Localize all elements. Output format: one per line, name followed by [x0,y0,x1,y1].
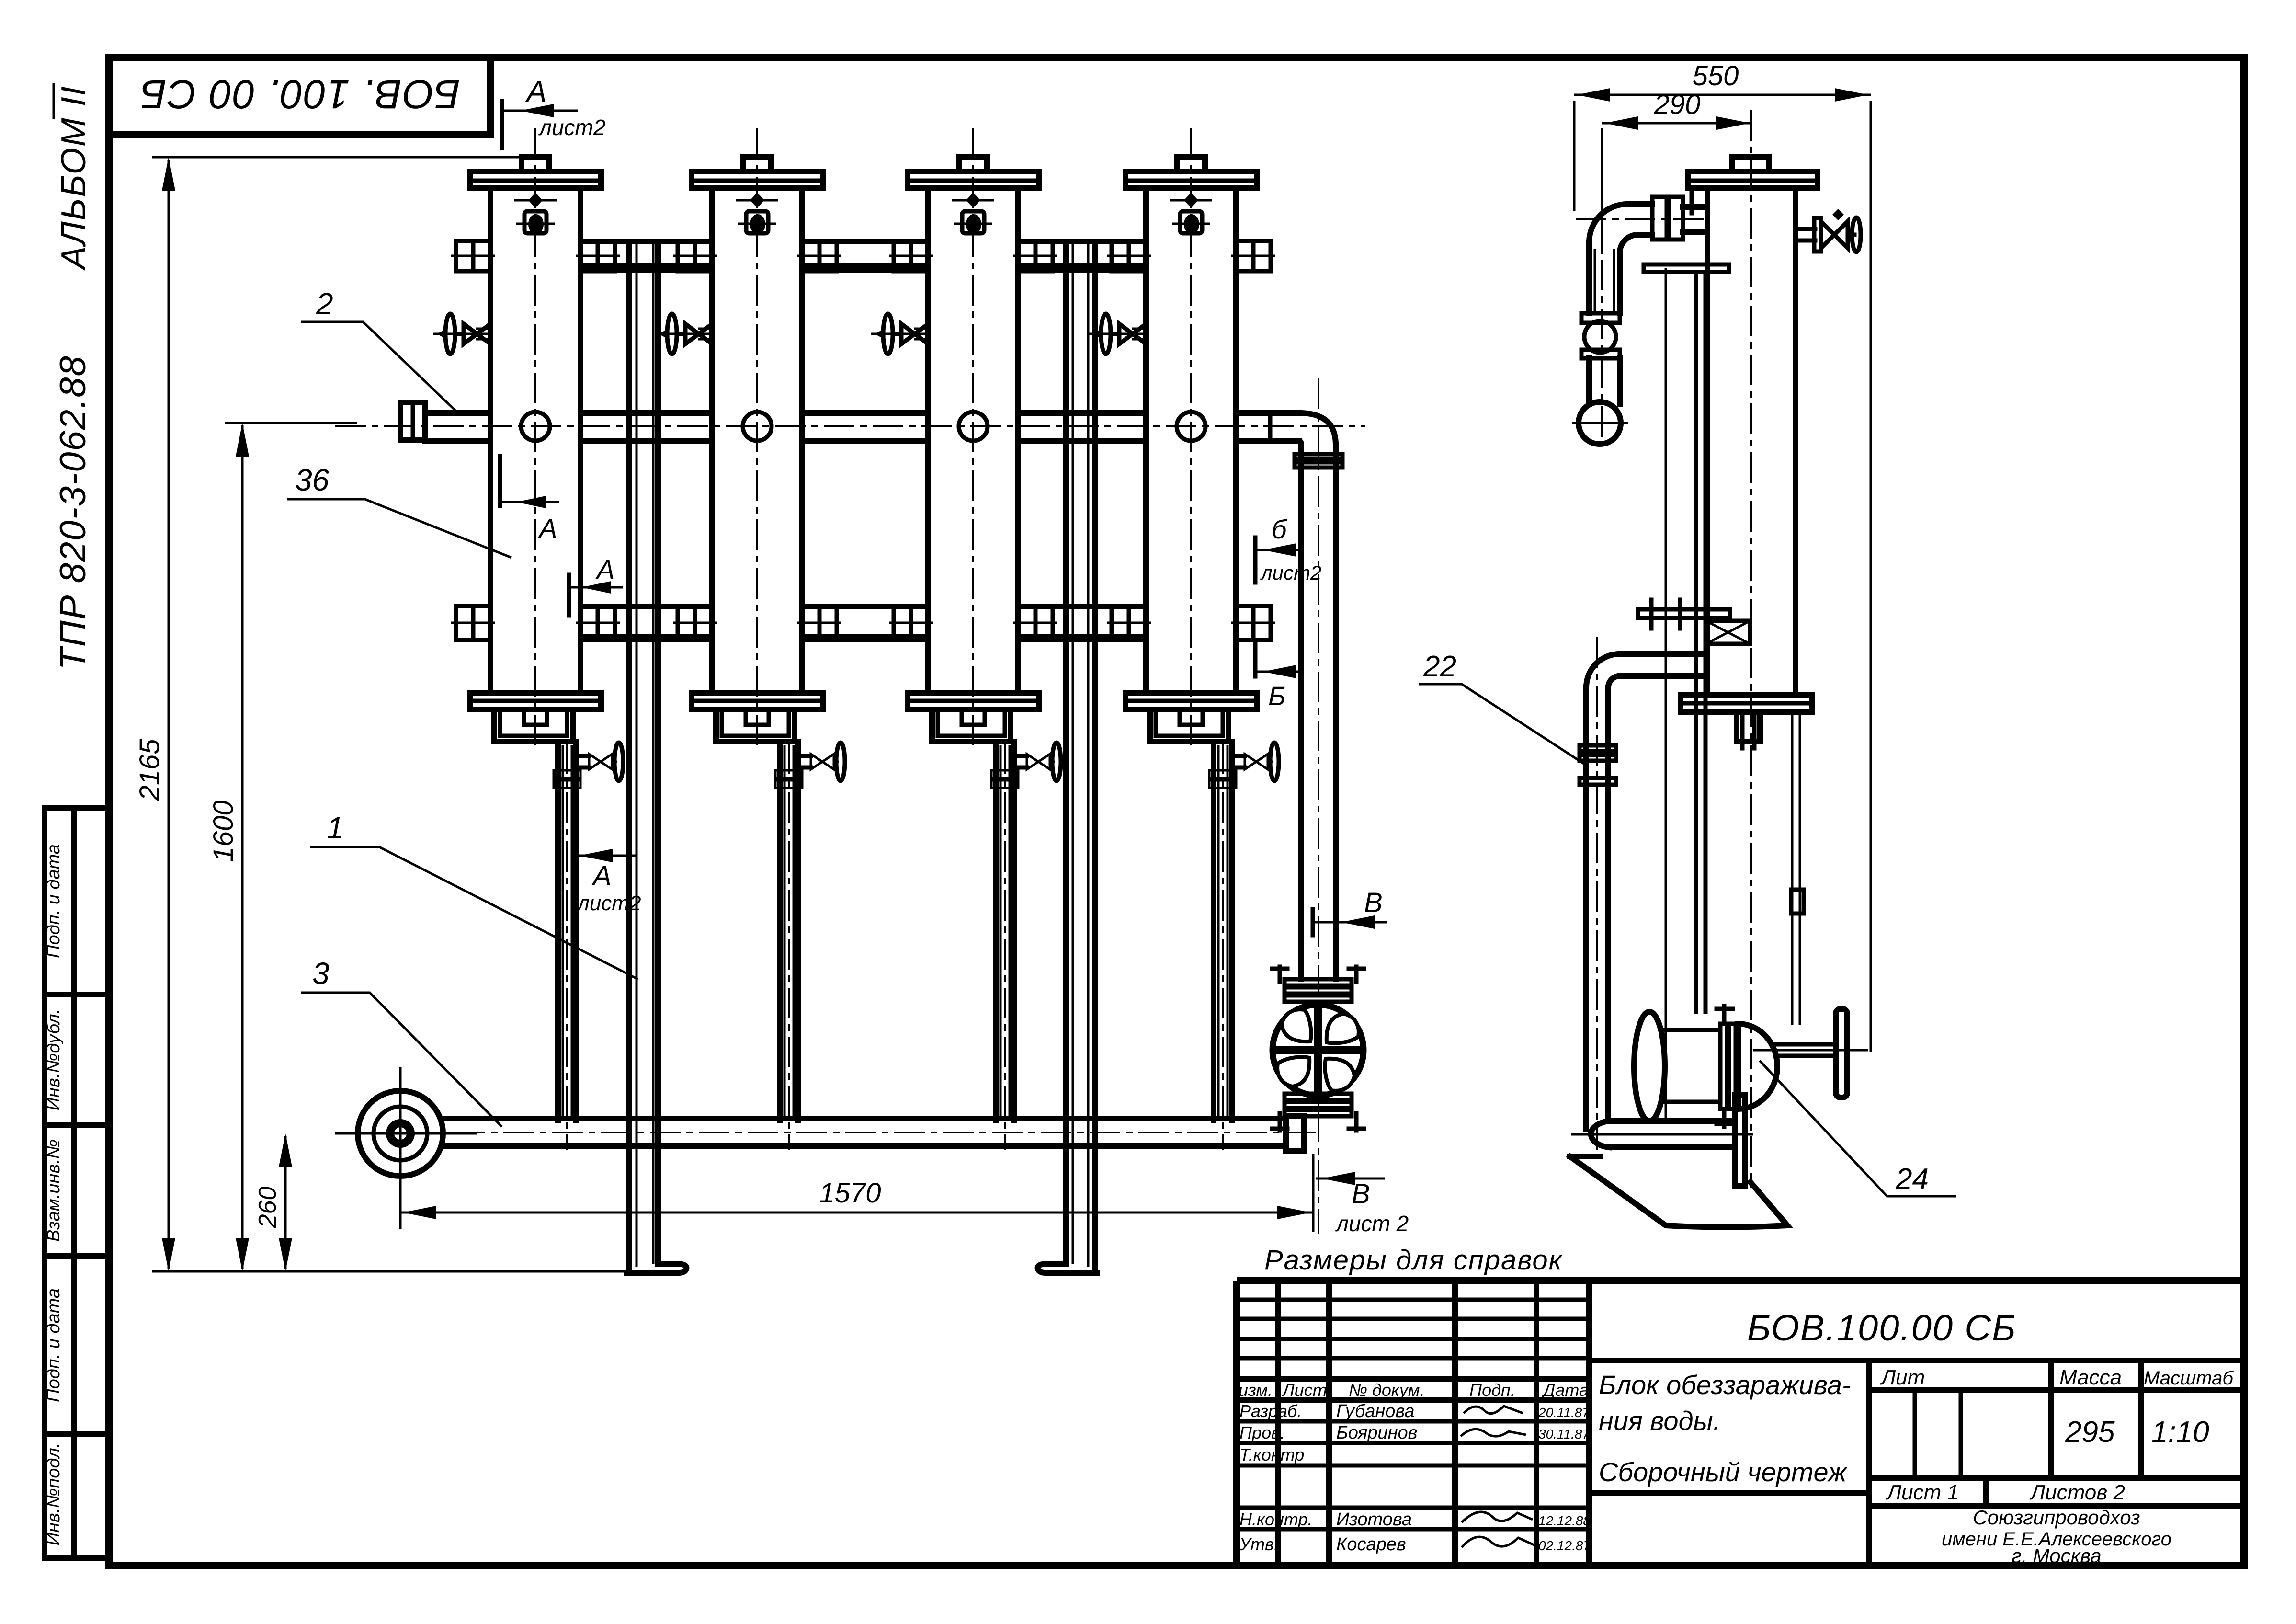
list row [1869,1478,2244,1506]
svg-text:12.12.88: 12.12.88 [1538,1513,1591,1528]
section mark V upper [1313,887,1387,935]
inlet nozzle flange (item 2) [400,402,425,440]
left margin album text [54,83,93,271]
collector elbow to riser [1270,413,1336,445]
section mark A mid upper [500,456,559,543]
svg-text:Косарев: Косарев [1336,1534,1406,1555]
side view inlet elbow (item 22 top) [1576,188,1707,446]
side view base shoe [1570,1156,1787,1227]
section mark A mid lower [569,554,623,615]
svg-text:лист2: лист2 [1260,561,1321,584]
svg-text:АЛЬБОМ ІІ: АЛЬБОМ ІІ [55,85,93,271]
side view top bolt [1732,157,1769,172]
section mark A top [502,75,605,148]
svg-text:2: 2 [316,286,333,321]
dimension 1600 [208,423,357,1271]
svg-text:В: В [1352,1178,1370,1210]
svg-text:А: А [591,860,612,892]
side view column centerline [1750,110,1752,1188]
svg-text:1570: 1570 [819,1178,881,1209]
lower manifold pipe segments [580,606,1146,639]
side view bottom valve (item 24) body [1634,1006,1736,1127]
svg-text:20.11.87: 20.11.87 [1538,1405,1590,1420]
ground reference line [152,1270,627,1273]
svg-text:Дата: Дата [1541,1380,1589,1400]
svg-text:БОВ. 100. 00 СБ: БОВ. 100. 00 СБ [139,72,460,117]
side view support plate [1735,1095,1745,1186]
dimension 1570 [400,1154,1313,1232]
revision table rows [1237,1300,1589,1529]
side view frame member verticals [1666,268,1800,1121]
callout 1 [310,811,638,979]
svg-text:А: А [538,513,557,543]
svg-text:Взам.инв.№: Взам.инв.№ [44,1139,64,1242]
svg-text:Сборочный чертеж: Сборочный чертеж [1599,1457,1848,1487]
lit massa masshtab cells [1869,1361,2244,1478]
svg-text:Б: Б [1268,681,1285,711]
svg-text:Масса: Масса [2059,1366,2122,1389]
side view collector end circle [1579,402,1621,444]
left margin designation text TPR 820-3-062.88 [53,355,93,670]
svg-text:г. Москва: г. Москва [2012,1544,2102,1567]
support leg 1 [627,241,686,1273]
section mark V lower [1316,1172,1409,1236]
row Utv [1239,1534,1591,1555]
column 2 assembly [655,128,845,1150]
side view top flange [1688,172,1818,188]
svg-text:1600: 1600 [208,800,239,862]
side view bottom flange [1681,695,1812,712]
main shut-off valve handwheel [1273,1005,1364,1096]
svg-text:изм.: изм. [1239,1380,1273,1400]
svg-text:Н.контр.: Н.контр. [1239,1510,1312,1529]
inlet pipe end (item 3) concentric circles [335,1067,477,1229]
svg-text:Подп.: Подп. [1469,1380,1515,1400]
middle collector pipe segments [335,413,1365,441]
name cell [1589,1361,1869,1566]
svg-text:лист2: лист2 [576,892,641,915]
svg-text:24: 24 [1895,1163,1929,1196]
top-left document number box [109,57,490,135]
svg-text:А: А [525,75,546,108]
title block outline [1237,1281,2244,1566]
svg-text:1:10: 1:10 [2151,1416,2209,1449]
svg-text:Лист: Лист [1282,1380,1327,1400]
side view valve 24 stem and handwheel [1753,1009,1868,1098]
svg-text:Подп. и дата: Подп. и дата [44,844,64,958]
callout 36 [287,463,511,558]
callout 24 [1760,1061,1956,1196]
svg-text:Лист 1: Лист 1 [1886,1481,1959,1504]
svg-text:б: б [1272,514,1288,544]
row Prov [1239,1423,1590,1443]
svg-text:Т.контр: Т.контр [1239,1445,1304,1464]
svg-text:295: 295 [2065,1416,2115,1449]
svg-text:Утв.: Утв. [1239,1534,1279,1554]
main shut-off valve bottom flange [1272,1094,1364,1131]
svg-text:22: 22 [1423,650,1456,683]
row N kontr [1239,1510,1591,1530]
svg-text:лист2: лист2 [538,115,605,140]
callout 22 [1419,650,1588,766]
callout 2 [301,286,456,411]
svg-text:А: А [595,554,614,584]
bottom pipe end flange [1286,1116,1304,1151]
dimension 290 [1602,89,1752,249]
svg-text:Союзгипроводхоз: Союзгипроводхоз [1973,1506,2140,1529]
main shut-off valve top flange [1272,967,1364,1002]
section mark A drain [576,849,641,915]
svg-text:36: 36 [295,463,330,497]
svg-text:Бояринов: Бояринов [1336,1423,1417,1443]
svg-text:02.12.87: 02.12.87 [1538,1538,1591,1553]
svg-text:Инв.№дубл.: Инв.№дубл. [44,1009,64,1111]
svg-text:№ докум.: № докум. [1349,1380,1425,1400]
svg-text:550: 550 [1693,60,1739,91]
support leg 2 [1038,241,1097,1273]
side view bottom pipe [1571,1121,1753,1147]
callout 3 [301,956,502,1127]
svg-text:2165: 2165 [134,739,165,801]
svg-text:В: В [1364,887,1383,918]
riser pipe [1301,378,1336,1234]
side view bottom head cup [1737,712,1760,748]
svg-text:Инв.№подл.: Инв.№подл. [44,1443,64,1546]
svg-text:ния воды.: ния воды. [1599,1406,1720,1436]
svg-text:Блок обеззаражива-: Блок обеззаражива- [1599,1370,1851,1400]
svg-text:Листов 2: Листов 2 [2029,1481,2125,1504]
svg-text:ТПР 820-3-062.88: ТПР 820-3-062.88 [53,355,93,670]
svg-text:БОВ.100.00 СБ: БОВ.100.00 СБ [1747,1308,2017,1349]
svg-text:30.11.87: 30.11.87 [1538,1427,1590,1441]
side view lower band bar with clamp [1638,600,1750,644]
side view upper band bar [1644,264,1729,272]
svg-text:290: 290 [1654,89,1701,120]
column 3 assembly [871,128,1061,1150]
organization cell [1942,1506,2171,1567]
side view drop elbow (item 22 bottom) [1580,637,1705,1150]
side view check valve on drop pipe [1581,313,1620,404]
header row labels [1239,1380,1589,1400]
svg-text:3: 3 [312,956,330,991]
side view column shell [1707,188,1796,695]
svg-text:Пров.: Пров. [1239,1423,1285,1442]
svg-text:Губанова: Губанова [1336,1401,1415,1421]
svg-text:1: 1 [327,811,344,845]
svg-text:Размеры для справок: Размеры для справок [1264,1245,1563,1276]
svg-text:Лит: Лит [1880,1366,1925,1389]
dimension 550 [1574,60,1871,1052]
section mark B lower [1255,641,1299,711]
column 1 assembly [433,128,623,1150]
svg-text:Масштаб: Масштаб [2144,1368,2234,1389]
row Razrab [1239,1401,1590,1421]
column 4 assembly [1089,128,1279,1150]
left stamp box column [45,808,109,1558]
section mark B upper [1255,514,1321,584]
revision table columns [1278,1281,1536,1566]
side view valve 24 dome bonnet [1738,1024,1777,1109]
svg-text:лист 2: лист 2 [1335,1211,1409,1236]
bottom collecting pipe (item 3 pipe) [357,1119,1316,1146]
svg-text:Изотова: Изотова [1336,1510,1412,1530]
side view leg bracket [1791,890,1804,914]
side view rear sampling valve [1796,209,1861,252]
dimension 2165 [134,157,522,1271]
riser union flange [1295,454,1342,468]
svg-text:260: 260 [254,1187,282,1229]
upper manifold pipe segments [580,241,1146,270]
svg-text:Разраб.: Разраб. [1239,1401,1302,1421]
document number cell [1589,1308,2244,1361]
svg-text:Подп. и дата: Подп. и дата [44,1288,64,1402]
dimension 260 [254,1133,292,1271]
